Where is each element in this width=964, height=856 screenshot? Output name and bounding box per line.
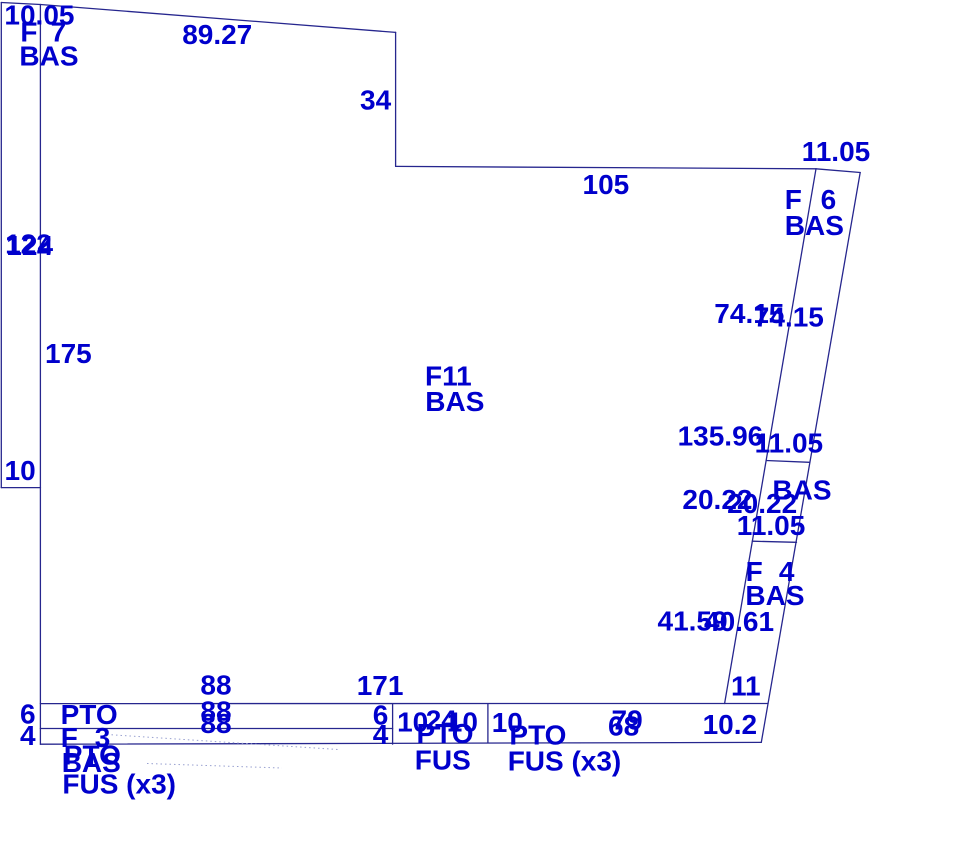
svg-text:11.05: 11.05 xyxy=(737,510,806,541)
svg-text:105: 105 xyxy=(583,169,630,200)
svg-text:135.96: 135.96 xyxy=(678,420,764,451)
svg-text:34: 34 xyxy=(360,84,392,115)
svg-text:FUS (x3): FUS (x3) xyxy=(508,746,622,777)
svg-text:40.61: 40.61 xyxy=(704,606,774,637)
svg-text:89.27: 89.27 xyxy=(182,19,252,50)
svg-text:10: 10 xyxy=(5,455,36,486)
svg-text:68: 68 xyxy=(608,710,639,741)
svg-text:175: 175 xyxy=(45,338,92,369)
svg-text:124: 124 xyxy=(6,230,53,261)
svg-text:171: 171 xyxy=(357,670,404,701)
svg-text:BAS: BAS xyxy=(425,386,484,417)
svg-text:FUS (x3): FUS (x3) xyxy=(62,768,176,799)
svg-text:11: 11 xyxy=(731,671,761,702)
svg-text:4: 4 xyxy=(373,719,389,750)
svg-text:BAS: BAS xyxy=(785,210,844,241)
svg-text:11.05: 11.05 xyxy=(802,136,871,167)
svg-text:FUS: FUS xyxy=(415,745,471,776)
svg-text:11.05: 11.05 xyxy=(755,427,824,458)
svg-text:BAS: BAS xyxy=(19,40,78,71)
svg-text:88: 88 xyxy=(200,708,231,739)
svg-text:74.15: 74.15 xyxy=(754,302,824,333)
svg-text:4: 4 xyxy=(20,720,36,751)
svg-text:10.2: 10.2 xyxy=(703,709,758,740)
